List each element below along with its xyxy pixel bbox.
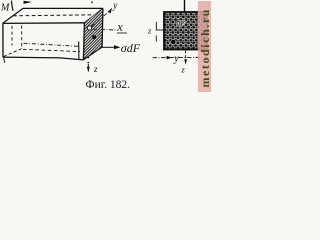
z-axis dots left figure [88,57,90,59]
svg-text:Фиг. 182.: Фиг. 182. [86,79,131,91]
cross-section block hatched [164,12,207,50]
section face right edge [101,8,104,47]
section z-axis line below block [185,51,187,61]
centroid circle on face [87,26,91,30]
watermark pink band [198,1,211,92]
dash under x label [117,32,127,34]
dF element dark mark on face [92,35,96,39]
beam top-right oblique edge [85,8,104,22]
z-axis arrow left figure [87,64,89,68]
moment M arrow arc [12,1,14,11]
inner vertical line near section [78,42,80,61]
hidden vertical dashed line [11,26,13,46]
beam top-left oblique edge [3,8,23,23]
x-axis dash-dot line [93,28,117,31]
beam back-top edge [23,7,103,9]
section face bottom oblique edge [83,47,102,60]
section y-axis arrowhead [167,56,173,60]
sigma dF force line [102,46,115,48]
svg-text:y: y [173,54,179,65]
moment M arrowhead [24,1,33,4]
speck dot [91,1,93,3]
y-axis dash-dot arrow [92,11,110,27]
beam left-front edge [2,23,4,57]
dF point in block [170,39,176,45]
z dimension line to block [156,29,164,31]
svg-text:y: y [112,1,118,12]
bottom-left corner stub [4,57,5,63]
section face hatched [83,8,103,60]
z dimension tick upper [155,22,157,30]
section y-axis dash-dot line [153,56,208,58]
section z-axis arrowhead [184,59,187,64]
z dimension tick lower [155,36,157,42]
hidden back-bottom edge dashed [23,49,80,51]
sigma dF arrowhead [114,45,121,49]
hidden bottom-left oblique edge dashed [4,48,23,56]
hidden back-left vertical edge dashed [21,26,23,48]
svg-text:z: z [93,64,98,74]
svg-text:x: x [116,20,123,34]
svg-text:M: M [0,3,10,14]
section vertical axis above block [184,0,186,12]
beam bottom-front edge [3,57,83,60]
svg-text:metodich.ru: metodich.ru [198,9,212,87]
hidden neutral layer dashed line [13,15,94,16]
beam top-front edge [3,22,85,25]
svg-text:dF: dF [177,19,186,28]
section face left edge [83,23,84,60]
svg-text:σdF: σdF [121,41,141,55]
svg-text:z: z [181,65,186,75]
svg-text:z: z [147,25,152,35]
beam axis dash-dot line [24,43,79,46]
